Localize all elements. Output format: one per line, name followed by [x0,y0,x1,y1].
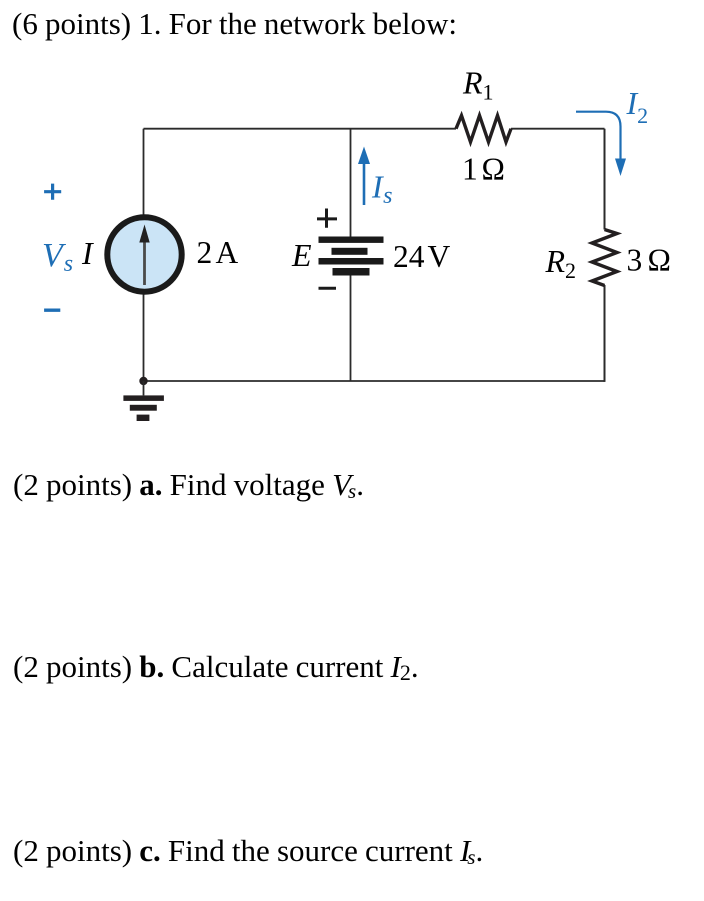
wire bottom [144,380,605,382]
svg-text:I: I [81,235,94,271]
ground [143,381,145,395]
svg-text:I2: I2 [626,85,649,128]
junction dot [139,377,147,385]
minus sign Vs [44,309,60,312]
current source I [107,217,181,291]
svg-text:R1: R1 [462,65,494,105]
plus sign Vs [44,184,61,200]
svg-text:Is: Is [371,169,393,210]
svg-text:1Ω: 1Ω [462,152,505,187]
wire top left-to-R1 [144,128,457,130]
resistor R2 [592,230,617,286]
svg-text:Vs: Vs [42,237,73,277]
battery minus sign [319,287,337,290]
svg-text:24V: 24V [393,239,451,274]
current arrow Is [363,163,366,205]
current source arrow [143,240,146,285]
wire left vertical upper [143,129,145,215]
wire middle vertical upper [350,129,352,237]
resistor R1 [456,116,511,143]
svg-text:3Ω: 3Ω [627,243,671,278]
current arrow I2 [576,112,621,159]
svg-text:R2: R2 [545,243,577,283]
wire middle vertical lower [350,275,352,381]
wire left vertical lower [143,294,145,381]
wire top R1-to-corner [511,128,605,130]
wire right vertical lower [604,285,606,382]
battery plus sign [317,209,337,228]
svg-text:E: E [291,237,312,273]
wire right vertical upper [604,129,606,230]
svg-text:2A: 2A [197,235,239,270]
battery E [319,237,384,243]
